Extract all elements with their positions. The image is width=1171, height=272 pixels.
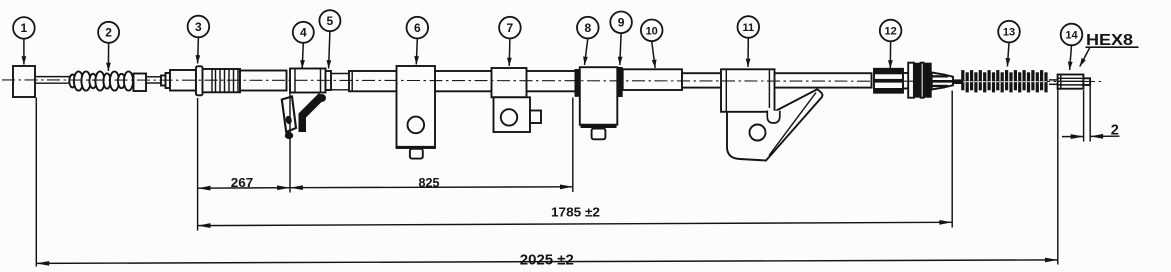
- svg-text:2025 ±2: 2025 ±2: [520, 253, 574, 269]
- svg-text:13: 13: [1003, 27, 1015, 39]
- svg-text:7: 7: [507, 21, 514, 35]
- svg-text:5: 5: [327, 14, 334, 28]
- svg-text:1785 ±2: 1785 ±2: [551, 205, 600, 220]
- svg-text:267: 267: [231, 175, 254, 190]
- svg-text:4: 4: [300, 26, 307, 40]
- svg-text:10: 10: [646, 25, 658, 37]
- svg-text:11: 11: [742, 22, 754, 34]
- svg-text:14: 14: [1065, 30, 1078, 42]
- svg-text:3: 3: [195, 20, 202, 34]
- svg-text:8: 8: [584, 21, 591, 35]
- svg-text:825: 825: [419, 175, 440, 190]
- svg-text:1: 1: [21, 21, 28, 35]
- svg-text:6: 6: [414, 21, 421, 35]
- svg-text:2: 2: [105, 26, 112, 40]
- svg-text:9: 9: [618, 16, 625, 30]
- svg-text:2: 2: [1111, 123, 1119, 139]
- svg-text:12: 12: [884, 26, 896, 38]
